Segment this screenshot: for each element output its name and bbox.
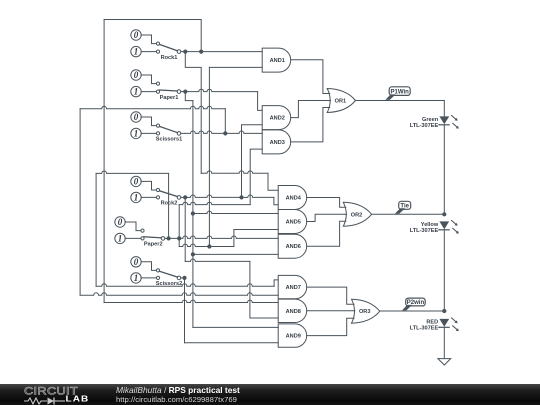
wire Rock2 line (185, 195, 241, 197)
svg-text:0: 0 (134, 70, 139, 80)
wire Paper2 bottom feed (96, 284, 274, 286)
junction Scissors1 branch (223, 131, 227, 135)
wire Paper2 riser to AND1 input 2 (208, 67, 210, 246)
svg-text:Paper2: Paper2 (144, 242, 163, 248)
throw contact 0 of SW Rock2 (156, 188, 159, 191)
junction Scissors2 (182, 276, 186, 280)
svg-text:0: 0 (118, 217, 123, 227)
wire LED column top (443, 101, 445, 117)
wire 1 to throw of SW Scissors2 (141, 277, 156, 279)
svg-text:OR3: OR3 (359, 309, 371, 315)
source 0 of SW Scissors2 (131, 257, 141, 267)
wire Scissors1 to AND3 input 1 (185, 131, 262, 133)
wire AND7 out to OR3 input 1 (307, 287, 354, 304)
wire Rock1 jog down (185, 52, 201, 174)
wire Paper2 into AND7 input 1 (274, 280, 278, 286)
junction Paper1 to AND6 (191, 252, 195, 256)
source 1 of SW Scissors2 (131, 273, 141, 283)
OR gate OR2 (343, 202, 371, 226)
wire Paper2 mid drop (178, 238, 180, 246)
wire Paper2 upper run (179, 202, 250, 204)
wire Paper2 into AND1 input 2 (209, 66, 262, 68)
lever of SW Scissors2 (position 0) (159, 271, 177, 277)
wire Rock2 drop to AND8 input 2 (250, 261, 278, 318)
pole contact of SW Rock1 (177, 50, 181, 54)
junction Paper2 b (177, 236, 181, 240)
throw contact 0 of SW Scissors1 (156, 124, 159, 127)
wire column green-to-tie (443, 125, 445, 215)
svg-text:LTL-307EE: LTL-307EE (410, 228, 439, 234)
wire Rock1 pole stub (181, 51, 184, 53)
wire 0 to throw of SW Rock1 (141, 35, 156, 44)
svg-text:1: 1 (134, 273, 139, 283)
svg-text:AND8: AND8 (286, 309, 301, 315)
svg-text:AND6: AND6 (286, 244, 301, 250)
wire Scissors1 left drop W_A (79, 109, 81, 296)
OR gate OR1 (327, 89, 355, 113)
wire 1 to throw of SW Paper2 (125, 237, 141, 239)
svg-text:AND4: AND4 (286, 196, 302, 202)
svg-text:0: 0 (134, 112, 139, 122)
source 0 of SW Paper1 (131, 70, 141, 80)
wire Paper1 jog down (185, 92, 193, 101)
wire Paper2 to AND6 input 1 (169, 236, 279, 238)
wire 0 to throw of SW Paper2 (125, 222, 141, 231)
wire AND6 out to OR2 input 3 (307, 221, 346, 246)
AND gate AND9 (278, 324, 306, 347)
junction Rock1 to frame (199, 50, 203, 54)
svg-text:Rock1: Rock1 (161, 55, 178, 61)
svg-text:1: 1 (134, 87, 139, 97)
LED D2 (Yellow LTL-307EE) (439, 221, 449, 229)
lever of SW Scissors1 (position 0) (159, 126, 177, 132)
junction Paper1 to AND5 (191, 211, 195, 215)
wire AND4 out to OR2 input 1 (307, 198, 346, 208)
wire 0 to throw of SW Paper1 (141, 75, 156, 84)
throw contact 1 of SW Paper1 (156, 90, 159, 93)
wire Rock2 low run (185, 259, 250, 261)
source 1 of SW Paper2 (115, 233, 125, 243)
AND gate AND6 (278, 234, 307, 258)
lever of SW Paper1 (position 1) (160, 90, 178, 91)
wire Rock1 bottom feed to AND8 input 1 (104, 300, 278, 302)
wire Paper1 long drop (192, 101, 194, 328)
wire Paper1 to AND2 input 1 (185, 89, 257, 91)
wire Paper1 drop into AND2 input 1 (258, 92, 263, 111)
wire Rock1 to AND1 input 1 (185, 51, 262, 53)
svg-text:OR1: OR1 (335, 99, 347, 105)
wire Paper1 feed AND6 input 2 (193, 253, 278, 255)
wire Rock1 into AND4 input 1 (268, 173, 278, 190)
wire Rock1 frame top (104, 20, 201, 52)
wire Rock2 to AND4 input 2 (242, 195, 274, 197)
source 1 of SW Paper1 (131, 86, 141, 96)
throw contact 1 of SW Scissors1 (156, 132, 159, 135)
throw contact 0 of SW Paper1 (156, 82, 159, 85)
throw contact 1 of SW Scissors2 (156, 276, 159, 279)
wire Paper2 riser (178, 205, 180, 239)
ground (438, 359, 451, 365)
wire Scissors1 left run W_A (80, 106, 225, 108)
wire Paper2 mid run (179, 244, 234, 246)
wire Rock1 frame left drop (103, 20, 105, 303)
wire 0 to throw of SW Rock2 (141, 181, 156, 190)
svg-text:P2win: P2win (407, 300, 425, 306)
wire Rock1 mid feed (201, 171, 268, 173)
pole contact of SW Scissors1 (177, 132, 181, 136)
throw contact 0 of SW Scissors2 (156, 269, 159, 272)
wire 1 to throw of SW Paper1 (141, 91, 156, 93)
AND gate AND4 (278, 186, 307, 210)
junction Rock2 branch (183, 195, 187, 199)
wire column yellow-to-p2win (443, 230, 445, 311)
svg-text:AND9: AND9 (286, 334, 301, 340)
wire AND1 out to OR1 input 1 (291, 60, 330, 94)
throw contact 0 of SW Rock1 (156, 42, 159, 45)
LED D3 (RED LTL-307EE) (439, 319, 449, 327)
junction Paper2 a (167, 236, 171, 240)
AND gate AND3 (262, 130, 291, 154)
svg-text:Scissors1: Scissors1 (156, 137, 182, 143)
LED D1 (Green LTL-307EE) (439, 116, 449, 124)
wire Scissors2 drop (184, 278, 186, 343)
wire Paper2 left run W_B (96, 171, 169, 173)
wire Scissors1 pole stub (181, 132, 185, 134)
wire Scissors1 riser to W_A (224, 109, 226, 134)
wire OR1 output P1Win net (356, 100, 445, 102)
lever of SW Paper2 (position 1) (144, 237, 161, 238)
wire Paper1 pole stub (181, 91, 184, 93)
svg-text:P1Win: P1Win (391, 89, 410, 95)
wire AND5 out to OR2 input 2 (307, 214, 347, 221)
wire Paper2 left drop W_B (95, 173, 97, 286)
svg-text:0: 0 (134, 30, 139, 40)
svg-text:AND2: AND2 (270, 116, 285, 122)
svg-text:0: 0 (134, 177, 139, 187)
AND gate AND5 (278, 210, 307, 234)
svg-text:AND1: AND1 (270, 58, 285, 64)
source 0 of SW Rock2 (131, 176, 141, 186)
wire Paper2 riser W_B (168, 173, 170, 238)
wire Scissors1 bottom feed AND7 input 2 (80, 293, 278, 295)
svg-text:AND3: AND3 (270, 140, 285, 146)
wire Scissors2 into AND9 input 2 (185, 342, 279, 344)
svg-text:Paper1: Paper1 (160, 95, 179, 101)
svg-text:LTL-307EE: LTL-307EE (410, 123, 439, 129)
AND gate AND8 (278, 299, 307, 322)
wire 0 to throw of SW Scissors2 (141, 262, 156, 271)
wire Paper2 jog to AND5 input 2 (234, 230, 278, 247)
source 0 of SW Paper2 (115, 217, 125, 227)
svg-text:AND7: AND7 (286, 285, 301, 291)
source 1 of SW Rock2 (131, 192, 141, 202)
lever of SW Rock1 (position 0) (159, 44, 177, 50)
wire AND9 out to OR3 input 3 (307, 318, 354, 335)
source 0 of SW Rock1 (131, 30, 141, 40)
svg-text:1: 1 (134, 129, 139, 139)
svg-text:Tie: Tie (400, 204, 409, 210)
svg-text:AND5: AND5 (286, 220, 301, 226)
svg-text:OR2: OR2 (351, 212, 363, 218)
AND gate AND2 (262, 106, 291, 130)
wire column red-to-ground (443, 327, 445, 358)
wire Scissors2 pole stub (181, 277, 185, 279)
pole contact of SW Paper2 (161, 237, 165, 241)
source 1 of SW Rock1 (131, 46, 141, 56)
wire 1 to throw of SW Scissors1 (141, 132, 156, 134)
svg-text:1: 1 (118, 234, 123, 244)
wire AND8 out to OR3 input 2 (307, 310, 355, 312)
wire Rock2 riser to AND2 input 2 (242, 125, 263, 198)
junction Tie net (442, 212, 446, 216)
wire Rock2 pole stub (181, 196, 183, 198)
throw contact 1 of SW Rock2 (156, 196, 159, 199)
throw contact 1 of SW Paper2 (141, 237, 144, 240)
net flag P2win (406, 298, 426, 306)
junction P2win net (442, 309, 446, 313)
source 0 of SW Scissors1 (131, 112, 141, 122)
AND gate AND1 (262, 48, 291, 72)
net flag P1Win (389, 87, 410, 96)
junction Paper2 to AND1 riser (207, 244, 211, 248)
wire Paper2 riser to AND3 input 2 (250, 149, 262, 205)
wire AND2 out to OR1 input 2 (291, 101, 331, 118)
wire Paper2 pole stub (165, 237, 167, 239)
wire AND3 out to OR1 input 3 (291, 108, 330, 142)
pole contact of SW Rock2 (177, 196, 181, 200)
source 1 of SW Scissors1 (131, 128, 141, 138)
wire Rock2 long drop (184, 197, 186, 261)
wire 0 to throw of SW Scissors1 (141, 117, 156, 126)
wire 1 to throw of SW Rock1 (141, 51, 156, 53)
wire Paper1 feed AND5 input 1 (193, 211, 278, 213)
junction Rock1 branch (183, 50, 187, 54)
pole contact of SW Paper1 (177, 90, 181, 94)
svg-text:0: 0 (134, 257, 139, 267)
net flag Tie (399, 201, 411, 209)
svg-text:LTL-307EE: LTL-307EE (410, 326, 439, 332)
svg-text:1: 1 (134, 193, 139, 203)
wire 1 to throw of SW Rock2 (141, 196, 156, 198)
lever of SW Rock2 (position 0) (159, 191, 177, 197)
svg-text:1: 1 (134, 47, 139, 57)
throw contact 1 of SW Rock1 (156, 50, 159, 53)
AND gate AND7 (278, 275, 307, 298)
junction Rock2 to AND2 (239, 195, 243, 199)
junction Paper1 branch (183, 90, 187, 94)
CircuitLab logo (24, 386, 78, 397)
OR gate OR3 (352, 299, 380, 323)
logo resistor-diode glyph (24, 397, 66, 405)
wire Paper1 into AND9 input 1 (193, 326, 278, 328)
pole contact of SW Scissors2 (177, 276, 181, 280)
wire OR2 output Tie net (372, 213, 445, 215)
throw contact 0 of SW Paper2 (141, 229, 144, 232)
wire Rock2 into AND4 input 2 (274, 197, 278, 204)
wire OR3 output P2win net (380, 310, 445, 312)
